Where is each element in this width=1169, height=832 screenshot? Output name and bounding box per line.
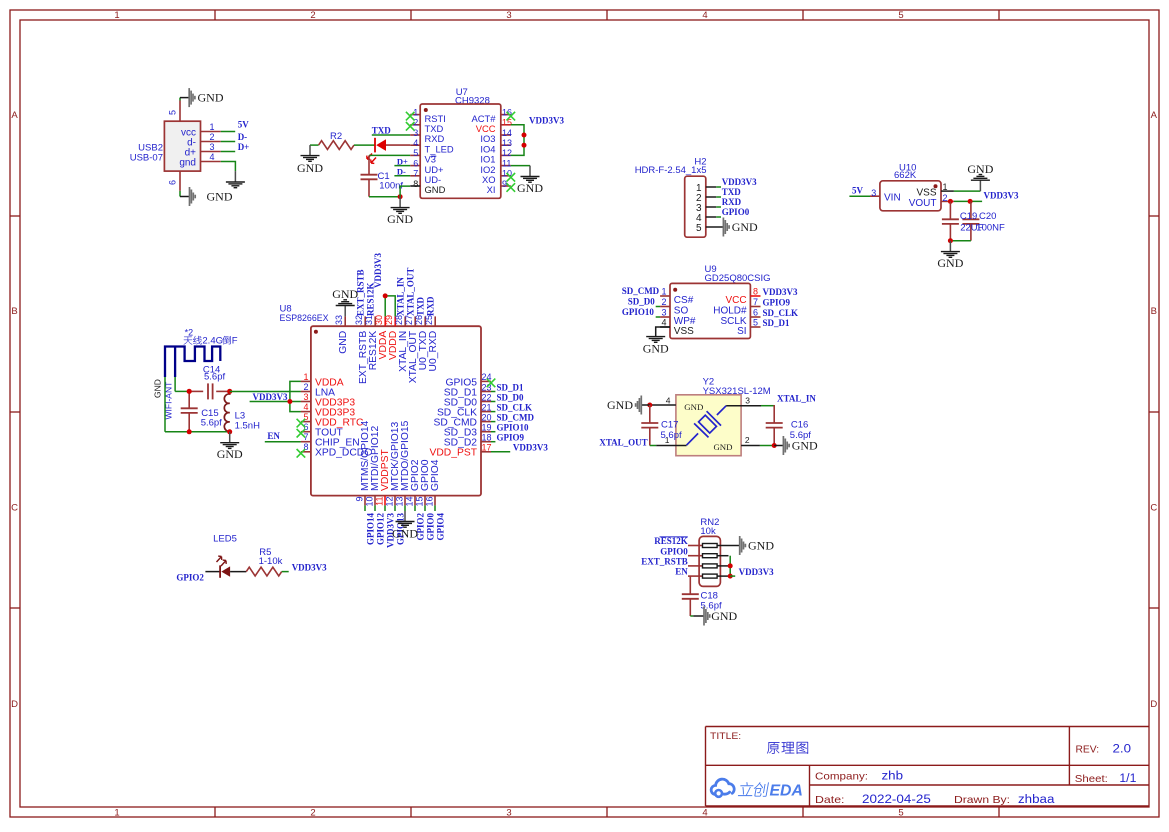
svg-text:GND: GND xyxy=(748,539,774,553)
svg-text:10: 10 xyxy=(365,497,375,507)
svg-text:XTAL_IN: XTAL_IN xyxy=(777,394,816,404)
svg-text:3: 3 xyxy=(209,142,214,152)
svg-text:SD_CLK: SD_CLK xyxy=(763,308,799,318)
svg-text:GPIO4: GPIO4 xyxy=(430,459,441,491)
svg-text:GND: GND xyxy=(297,161,323,175)
svg-text:GND: GND xyxy=(607,398,633,412)
svg-text:2: 2 xyxy=(303,382,308,392)
svg-text:3: 3 xyxy=(303,392,308,402)
svg-text:13: 13 xyxy=(502,138,512,148)
svg-text:100NF: 100NF xyxy=(976,222,1005,233)
svg-text:1: 1 xyxy=(661,287,666,297)
svg-text:GND: GND xyxy=(217,447,243,461)
svg-text:EDA: EDA xyxy=(770,782,803,799)
svg-text:4: 4 xyxy=(702,10,707,21)
svg-text:GND: GND xyxy=(967,162,993,176)
svg-text:CS#: CS# xyxy=(674,295,694,306)
svg-text:GND: GND xyxy=(387,212,413,226)
svg-text:1: 1 xyxy=(943,182,948,192)
svg-text:XI: XI xyxy=(487,184,496,195)
svg-text:VDD3V3: VDD3V3 xyxy=(513,442,548,452)
svg-text:3: 3 xyxy=(506,10,511,21)
svg-text:GPIO0: GPIO0 xyxy=(426,513,436,541)
svg-text:SI: SI xyxy=(737,326,746,337)
svg-text:VDD3V3: VDD3V3 xyxy=(739,567,774,577)
svg-text:SD_D0: SD_D0 xyxy=(628,297,656,307)
svg-text:5.6pf: 5.6pf xyxy=(201,418,222,429)
svg-text:3: 3 xyxy=(661,308,666,318)
svg-text:4: 4 xyxy=(661,318,666,328)
svg-text:22: 22 xyxy=(482,392,492,402)
svg-text:B: B xyxy=(1151,306,1157,317)
svg-text:R2: R2 xyxy=(330,131,342,142)
svg-text:D+: D+ xyxy=(238,142,250,152)
svg-text:GND: GND xyxy=(684,402,703,412)
svg-text:15: 15 xyxy=(415,497,425,507)
svg-text:5: 5 xyxy=(168,110,178,115)
svg-text:6: 6 xyxy=(413,158,418,168)
svg-text:EN: EN xyxy=(267,431,280,441)
svg-text:D: D xyxy=(1150,699,1157,710)
svg-text:HDR-F-2.54_1x5: HDR-F-2.54_1x5 xyxy=(635,165,707,176)
svg-text:VDD3V3: VDD3V3 xyxy=(253,392,288,402)
svg-text:3: 3 xyxy=(871,188,876,198)
svg-text:GD25Q80CSIG: GD25Q80CSIG xyxy=(705,273,771,284)
svg-text:14: 14 xyxy=(405,497,415,507)
svg-text:gnd: gnd xyxy=(179,158,196,169)
svg-text:SD_CMD: SD_CMD xyxy=(497,412,535,422)
svg-text:VDD3V3: VDD3V3 xyxy=(984,191,1019,201)
svg-text:GND: GND xyxy=(517,181,543,195)
svg-text:2: 2 xyxy=(943,193,948,203)
svg-text:GND: GND xyxy=(713,442,732,452)
svg-text:4: 4 xyxy=(702,808,707,819)
svg-text:7: 7 xyxy=(413,169,418,179)
svg-text:GPIO10: GPIO10 xyxy=(497,423,530,433)
svg-text:5V: 5V xyxy=(852,186,864,196)
svg-text:XTAL_OUT: XTAL_OUT xyxy=(599,437,647,447)
svg-text:GND: GND xyxy=(643,342,669,356)
svg-text:SD_D1: SD_D1 xyxy=(763,318,791,328)
svg-text:6: 6 xyxy=(753,308,758,318)
svg-text:XTAL_IN: XTAL_IN xyxy=(396,277,406,316)
svg-text:GND: GND xyxy=(711,609,737,623)
svg-text:zhb: zhb xyxy=(882,771,904,783)
svg-text:GND: GND xyxy=(732,220,758,234)
svg-text:GND: GND xyxy=(392,527,418,541)
svg-text:19: 19 xyxy=(482,423,492,433)
svg-text:1: 1 xyxy=(114,10,119,21)
svg-text:B: B xyxy=(11,306,17,317)
svg-text:4: 4 xyxy=(413,138,418,148)
svg-text:Company:: Company: xyxy=(815,771,868,783)
svg-text:5.6pf: 5.6pf xyxy=(204,372,225,383)
svg-text:VSS: VSS xyxy=(674,326,694,337)
svg-text:GND: GND xyxy=(425,184,446,195)
svg-text:GND: GND xyxy=(198,91,224,105)
svg-text:D: D xyxy=(11,699,18,710)
svg-text:VDD3V3: VDD3V3 xyxy=(292,562,327,572)
svg-text:1.5nH: 1.5nH xyxy=(235,421,260,432)
svg-text:2: 2 xyxy=(661,297,666,307)
svg-text:U0_RXD: U0_RXD xyxy=(428,331,439,372)
svg-text:F: F xyxy=(232,336,238,347)
svg-text:GND: GND xyxy=(153,379,163,398)
svg-text:1/1: 1/1 xyxy=(1119,773,1136,785)
svg-text:16: 16 xyxy=(425,497,435,507)
svg-text:GND: GND xyxy=(792,439,818,453)
svg-text:C: C xyxy=(1150,502,1157,513)
svg-text:5.6pf: 5.6pf xyxy=(661,430,682,441)
svg-text:D+: D+ xyxy=(397,156,408,166)
svg-text:12: 12 xyxy=(385,497,395,507)
svg-text:VDD3V3: VDD3V3 xyxy=(373,253,383,288)
svg-text:GPIO12: GPIO12 xyxy=(376,513,386,546)
svg-text:5: 5 xyxy=(696,223,702,234)
svg-text:HOLD#: HOLD# xyxy=(713,305,747,316)
svg-text:4: 4 xyxy=(209,152,214,162)
svg-text:2: 2 xyxy=(310,808,315,819)
svg-text:11: 11 xyxy=(502,158,511,168)
svg-text:2022-04-25: 2022-04-25 xyxy=(862,794,931,806)
svg-text:20: 20 xyxy=(482,412,492,422)
svg-text:REV:: REV: xyxy=(1076,744,1100,756)
svg-text:10k: 10k xyxy=(700,526,716,537)
svg-text:D-: D- xyxy=(238,132,248,142)
svg-text:C20: C20 xyxy=(979,211,996,222)
svg-text:SD_CLK: SD_CLK xyxy=(497,402,533,412)
svg-text:GPIO10: GPIO10 xyxy=(622,307,655,317)
svg-text:VSS: VSS xyxy=(916,187,936,198)
svg-text:3: 3 xyxy=(506,808,511,819)
svg-text:5: 5 xyxy=(898,10,903,21)
svg-text:30: 30 xyxy=(374,315,384,325)
svg-text:5: 5 xyxy=(753,318,758,328)
svg-text:Date:: Date: xyxy=(815,794,845,806)
svg-text:RES12K: RES12K xyxy=(654,536,688,546)
svg-text:USB-07: USB-07 xyxy=(130,152,163,163)
svg-text:24: 24 xyxy=(482,372,492,382)
svg-text:33: 33 xyxy=(334,315,344,325)
svg-text:SD_D0: SD_D0 xyxy=(497,392,525,402)
svg-text:Drawn By:: Drawn By: xyxy=(954,794,1010,806)
svg-text:VOUT: VOUT xyxy=(909,198,937,209)
svg-text:VDD3V3: VDD3V3 xyxy=(763,287,798,297)
svg-text:ESP8266EX: ESP8266EX xyxy=(280,313,330,324)
svg-text:5: 5 xyxy=(898,808,903,819)
svg-text:14: 14 xyxy=(502,128,512,138)
svg-text:29: 29 xyxy=(384,315,394,325)
svg-text:SD_D1: SD_D1 xyxy=(497,382,525,392)
svg-text:5V: 5V xyxy=(238,120,250,130)
svg-text:EXT_RSTB: EXT_RSTB xyxy=(641,557,688,567)
svg-text:12: 12 xyxy=(502,148,512,158)
svg-text:LED5: LED5 xyxy=(213,534,237,545)
svg-text:A: A xyxy=(11,110,18,121)
svg-text:D-: D- xyxy=(397,167,406,177)
svg-text:GND: GND xyxy=(332,287,358,301)
svg-text:GPIO9: GPIO9 xyxy=(497,433,525,443)
svg-text:1-10k: 1-10k xyxy=(259,556,283,567)
svg-text:GPIO2: GPIO2 xyxy=(176,573,204,583)
svg-text:1: 1 xyxy=(209,122,214,132)
svg-text:TXD: TXD xyxy=(372,126,392,136)
svg-text:2: 2 xyxy=(745,435,750,445)
svg-text:C19: C19 xyxy=(960,211,977,222)
svg-text:zhbaa: zhbaa xyxy=(1018,794,1055,806)
svg-text:7: 7 xyxy=(753,297,758,307)
svg-text:RXD: RXD xyxy=(426,296,436,316)
svg-text:3: 3 xyxy=(745,396,750,406)
svg-text:VDD_PST: VDD_PST xyxy=(430,448,478,459)
svg-text:11: 11 xyxy=(375,497,385,506)
svg-text:VDD3V3: VDD3V3 xyxy=(529,116,564,126)
svg-text:GPIO0: GPIO0 xyxy=(722,207,750,217)
svg-text:TXD: TXD xyxy=(416,296,426,316)
svg-text:13: 13 xyxy=(395,497,405,507)
svg-text:662K: 662K xyxy=(894,170,917,181)
svg-text:GND: GND xyxy=(207,190,233,204)
svg-text:2.0: 2.0 xyxy=(1113,744,1132,756)
svg-text:21: 21 xyxy=(482,402,492,412)
svg-text:GND: GND xyxy=(937,256,963,270)
svg-text:18: 18 xyxy=(482,433,492,443)
svg-text:8: 8 xyxy=(413,179,418,189)
svg-text:GPIO4: GPIO4 xyxy=(436,513,446,541)
svg-text:*2: *2 xyxy=(185,327,194,337)
svg-text:1: 1 xyxy=(303,372,308,382)
svg-text:SO: SO xyxy=(674,305,689,316)
svg-text:A: A xyxy=(1151,110,1158,121)
svg-text:4: 4 xyxy=(303,402,308,412)
svg-text:XTAL_OUT: XTAL_OUT xyxy=(406,268,416,316)
svg-text:9: 9 xyxy=(355,497,365,502)
svg-text:TITLE:: TITLE: xyxy=(710,731,741,742)
svg-text:17: 17 xyxy=(482,443,492,453)
svg-text:GPIO14: GPIO14 xyxy=(366,513,376,546)
svg-text:GPIO9: GPIO9 xyxy=(763,298,791,308)
svg-text:GND: GND xyxy=(338,331,349,354)
svg-text:SD_CMD: SD_CMD xyxy=(622,286,660,296)
svg-text:C: C xyxy=(11,502,18,513)
svg-text:2: 2 xyxy=(209,132,214,142)
svg-text:EN: EN xyxy=(675,567,688,577)
svg-text:TXD: TXD xyxy=(722,187,742,197)
svg-text:8: 8 xyxy=(753,287,758,297)
svg-text:VCC: VCC xyxy=(725,295,746,306)
svg-text:Sheet:: Sheet: xyxy=(1075,773,1108,785)
svg-text:4: 4 xyxy=(666,396,671,406)
svg-text:2: 2 xyxy=(310,10,315,21)
svg-text:1: 1 xyxy=(114,808,119,819)
svg-text:2.4G: 2.4G xyxy=(202,336,223,347)
svg-text:RXD: RXD xyxy=(722,197,742,207)
svg-text:6: 6 xyxy=(168,180,178,185)
svg-text:VIN: VIN xyxy=(884,193,901,204)
svg-text:GPIO0: GPIO0 xyxy=(660,546,688,556)
svg-text:5: 5 xyxy=(413,148,418,158)
svg-text:VDD3V3: VDD3V3 xyxy=(722,177,757,187)
